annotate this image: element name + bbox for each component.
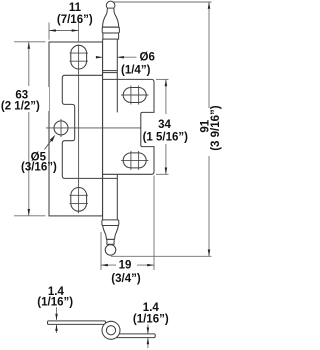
svg-text:(2 1/2”): (2 1/2”)	[1, 100, 40, 112]
svg-text:(1 5/16”): (1 5/16”)	[143, 132, 189, 144]
svg-text:(3/16”): (3/16”)	[21, 162, 57, 174]
svg-text:(3/4”): (3/4”)	[111, 273, 141, 285]
svg-text:(1/16”): (1/16”)	[37, 297, 73, 309]
svg-text:1.4: 1.4	[143, 302, 160, 314]
svg-text:(3 9/16”): (3 9/16”)	[210, 105, 222, 151]
svg-text:(1/4”): (1/4”)	[121, 64, 151, 76]
svg-text:19: 19	[119, 260, 132, 272]
svg-text:(1/16”): (1/16”)	[133, 313, 169, 325]
svg-text:Ø6: Ø6	[140, 52, 155, 64]
svg-text:34: 34	[158, 119, 171, 131]
svg-text:11: 11	[69, 2, 82, 14]
svg-text:(7/16”): (7/16”)	[57, 14, 93, 26]
